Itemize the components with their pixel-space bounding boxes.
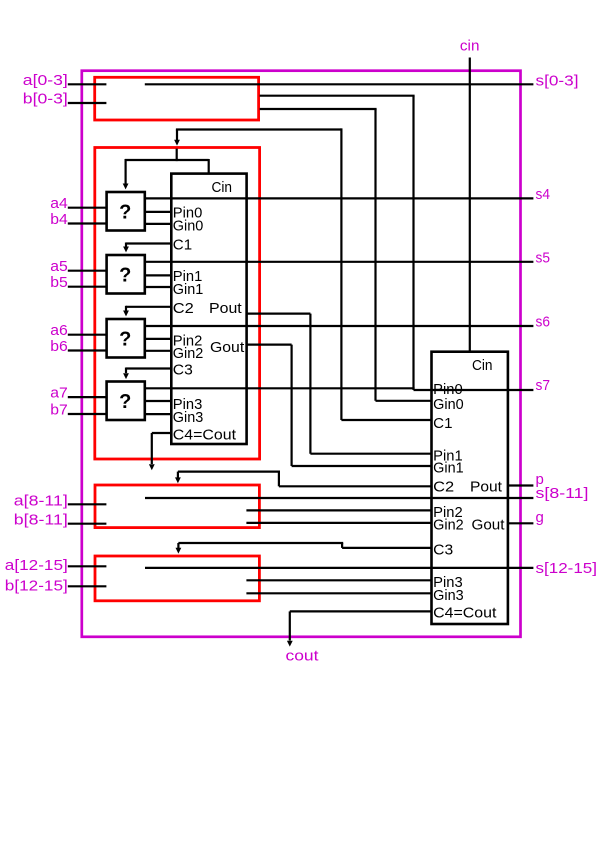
wire C2 drop to Q3 [125, 306, 127, 311]
red slice box X4 (bits 12-15 adder) [95, 556, 259, 601]
wire C3 drop to Q4 [125, 368, 127, 374]
svg-text:Pout: Pout [209, 301, 242, 317]
wire b4 input stub [68, 222, 107, 224]
wire U2 C4 stub [290, 610, 432, 612]
svg-text:b5: b5 [50, 274, 68, 291]
wire a6 input stub [68, 334, 107, 336]
wire C3 jog vertical [341, 543, 343, 548]
svg-text:C4=Cout: C4=Cout [433, 606, 496, 622]
svg-text:?: ? [119, 202, 131, 224]
svg-text:cin: cin [460, 38, 480, 55]
wire Q2 p output to U1 Pin1 [145, 274, 172, 276]
svg-text:b6: b6 [50, 338, 68, 355]
adder cell Q3 (bit 6) box [107, 319, 145, 358]
wire C3 arrow drop [177, 543, 179, 548]
svg-text:Gin1: Gin1 [433, 461, 464, 477]
wire b[8-11] input stub [68, 523, 107, 525]
wire X2 carry-in from red edge [176, 149, 178, 162]
adder cell Q4 (bit 7) box [107, 382, 145, 421]
wire U2 Gout to port g [508, 522, 534, 524]
arrow into X4 carry input [176, 548, 182, 554]
arrow into X3 carry input [175, 477, 181, 483]
wire X1 P vertical drop [412, 96, 414, 390]
svg-text:Gin0: Gin0 [173, 219, 204, 235]
svg-text:g: g [536, 509, 544, 526]
wire into U2 Pin1 [310, 453, 431, 455]
wire carry drop to Q1 [124, 159, 126, 184]
wire X1 G output [260, 108, 377, 110]
wire X3 G output to U2 Gin2 [246, 522, 431, 524]
wire Q4 g output to U1 Gin3 [145, 413, 172, 415]
svg-text:a5: a5 [50, 258, 68, 275]
wire s5 from Q2 to port [145, 261, 534, 263]
adder cell Q2 (bit 5) box [107, 255, 145, 294]
wire X4 P output to U2 Pin3 [246, 579, 431, 581]
red slice box X3 (bits 8-11 adder) [95, 485, 259, 528]
wire C3 horizontal to X4 [178, 542, 343, 544]
svg-text:Gin3: Gin3 [433, 588, 464, 604]
svg-text:C2: C2 [433, 480, 454, 496]
wire a4 input stub [68, 207, 107, 209]
arrow toward X3 [149, 464, 155, 470]
wire b5 input stub [68, 286, 107, 288]
svg-text:a4: a4 [50, 195, 68, 212]
wire U1 C4 vertical drop [151, 433, 153, 464]
svg-text:a[12-15]: a[12-15] [5, 557, 68, 574]
svg-text:C3: C3 [173, 363, 193, 379]
adder cell Q1 (bit 4) box [107, 192, 145, 231]
wire Q1 p output to U1 Pin0 [145, 211, 172, 213]
svg-text:b4: b4 [50, 211, 68, 228]
wire b[12-15] input stub [68, 585, 107, 587]
wire Q4 p output to U1 Pin3 [145, 400, 172, 402]
carry-lookahead unit U2 (right box) [432, 352, 508, 624]
red slice box X1 (bits 0-3 adder) [95, 77, 259, 120]
wire X2 carry-in horizontal [125, 159, 209, 161]
wire s4 from Q1 to port [145, 197, 534, 199]
wire U2 C3 stub [342, 547, 431, 549]
wire s7 from Q4 (left part) [145, 387, 415, 389]
svg-text:b[12-15]: b[12-15] [5, 577, 68, 594]
svg-text:s5: s5 [536, 249, 551, 266]
svg-text:b7: b7 [50, 402, 68, 419]
wire s[8-11] from X3 to port [145, 497, 533, 499]
arrow to cout port [287, 641, 293, 647]
arrow into Q1 carry input [123, 184, 129, 190]
svg-text:C4=Cout: C4=Cout [173, 428, 236, 444]
red slice box X2 (bits 4-7 adder) [95, 148, 260, 460]
wire a7 input stub [68, 396, 107, 398]
svg-text:C2: C2 [173, 301, 194, 317]
wire U1 C3 output [126, 367, 171, 369]
svg-text:?: ? [119, 265, 131, 287]
svg-text:s6: s6 [536, 314, 551, 331]
wire b7 input stub [68, 413, 107, 415]
wire b6 input stub [68, 349, 107, 351]
magenta circuit boundary box [82, 71, 521, 637]
svg-text:a[0-3]: a[0-3] [23, 72, 68, 89]
wire C1 drop to Q2 [125, 243, 127, 247]
wire Q2 g output to U1 Gin1 [145, 286, 172, 288]
wire a5 input stub [68, 270, 107, 272]
svg-text:Gin1: Gin1 [173, 282, 204, 298]
svg-text:a7: a7 [50, 385, 68, 402]
svg-text:?: ? [119, 391, 131, 413]
wire C1 arrow drop into X2 [176, 130, 178, 141]
wire X4 G output to U2 Gin3 [246, 592, 431, 594]
wire Q1 g output to U1 Gin0 [145, 223, 172, 225]
svg-text:cout: cout [286, 648, 320, 665]
wire a[12-15] input stub [68, 565, 107, 567]
wire a[0-3] input stub [68, 83, 107, 85]
svg-text:C1: C1 [173, 238, 192, 254]
wire U1 Pout output [247, 313, 311, 315]
wire Q3 g output to U1 Gin2 [145, 350, 172, 352]
wire U1 C2 output [126, 306, 171, 308]
svg-text:b[8-11]: b[8-11] [14, 512, 68, 529]
carry-lookahead unit U1 (left box) [171, 174, 246, 444]
wire into U2 Gin0 [376, 400, 432, 402]
svg-text:a[8-11]: a[8-11] [14, 492, 68, 509]
svg-text:s[8-11]: s[8-11] [536, 485, 589, 502]
svg-text:Gout: Gout [210, 340, 244, 356]
wire Pout vertical drop [309, 314, 311, 454]
svg-text:C1: C1 [433, 416, 452, 432]
wire X1 P output [260, 95, 415, 97]
wire s[0-3] from X1 to port [145, 83, 534, 85]
wire into U2 Gin1 [292, 465, 432, 467]
wire a[8-11] input stub [68, 503, 107, 505]
arrow into Q4 carry input [123, 373, 129, 379]
wire Gout vertical drop [291, 345, 293, 466]
wire U2 C1 vertical riser [340, 128, 342, 420]
wire b[0-3] input stub [68, 102, 107, 104]
svg-text:Cin: Cin [472, 358, 493, 374]
svg-text:Cin: Cin [212, 180, 233, 196]
svg-text:s7: s7 [536, 377, 551, 394]
arrow into Q2 carry input [123, 247, 129, 253]
wire U1 C1 output [126, 242, 171, 244]
wire C2 vertical riser [278, 471, 280, 487]
svg-text:Gin2: Gin2 [173, 346, 204, 362]
svg-text:Gout: Gout [472, 518, 505, 534]
svg-text:Pout: Pout [470, 480, 502, 496]
wire s7 to port (right part, shares track with U2 Pin0) [414, 389, 534, 391]
wire cin down to U2 Cin [469, 58, 471, 352]
svg-text:C3: C3 [433, 543, 453, 559]
wire U2 Pout to port p [508, 484, 534, 486]
wire U1 C4 stub [152, 432, 172, 434]
wire to U1 Cin (top) [208, 159, 210, 173]
wire X3 P output to U2 Pin2 [246, 509, 431, 511]
svg-text:a6: a6 [50, 322, 68, 339]
wire U1 Gout output [247, 344, 292, 346]
svg-text:Gin0: Gin0 [433, 397, 464, 413]
wire C2 horizontal to X3 [178, 471, 280, 473]
svg-text:b[0-3]: b[0-3] [23, 91, 68, 108]
wire s[12-15] from X4 to port [145, 567, 533, 569]
svg-text:s[0-3]: s[0-3] [536, 72, 579, 89]
wire Q3 p output to U1 Pin2 [145, 338, 172, 340]
svg-text:Gin2: Gin2 [433, 518, 464, 534]
wire cout vertical drop [289, 611, 291, 640]
svg-text:?: ? [119, 329, 131, 351]
svg-text:s4: s4 [536, 186, 551, 203]
arrow into Q3 carry input [123, 311, 129, 317]
arrow into X2 carry input [174, 140, 180, 146]
wire s6 from Q3 to port [145, 325, 534, 327]
svg-text:s[12-15]: s[12-15] [536, 560, 598, 577]
wire U2 C1 horizontal top [176, 128, 342, 130]
wire U2 C1 stub [341, 419, 431, 421]
svg-text:Gin3: Gin3 [173, 410, 204, 426]
wire C2 arrow drop [177, 472, 179, 478]
wire X1 G vertical drop [374, 109, 376, 401]
wire U2 C2 stub [279, 485, 432, 487]
